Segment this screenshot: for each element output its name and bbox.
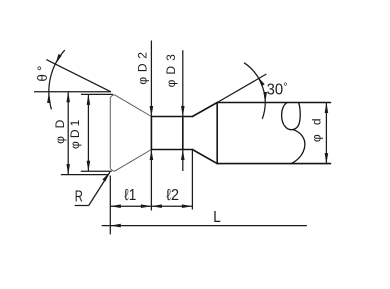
phiD3 dimension line upper [182, 50, 184, 116]
phiD dimension line [67, 92, 69, 175]
neck left vertical [150, 117, 152, 150]
cylinder left edge [216, 103, 218, 164]
arrow phiD1 top (up) [87, 94, 91, 105]
arrow phiD top (up) [66, 92, 70, 103]
neck right vertical [182, 117, 184, 150]
cylinder top edge [217, 102, 330, 104]
neck top edge [151, 116, 192, 118]
left extension line for l1 and L [109, 176, 111, 235]
phiD1 top extension line [81, 93, 113, 95]
phiD3 dimension line lower [182, 150, 184, 172]
break squiggle upper lobe [282, 103, 301, 130]
arrow 30 arc lower (down onto cylinder top) [263, 92, 267, 103]
arrow l1 right [141, 204, 152, 208]
arrow theta arc upper (down-left onto slant) [55, 54, 61, 64]
arrow theta arc lower (up) [47, 93, 51, 104]
30deg angle arc [244, 63, 265, 119]
phiD1 bottom extension line [81, 170, 112, 172]
phiD bottom extension line [61, 174, 108, 176]
cylinder bottom edge [217, 163, 330, 165]
arrow phid top (up) [325, 103, 329, 114]
R leader landing [75, 205, 89, 207]
arrow phiD2 top (down onto neck) [150, 106, 154, 117]
svg-text:ℓ1: ℓ1 [124, 187, 136, 204]
arrow phiD1 bottom (down) [87, 161, 91, 172]
arrow phiD2 bottom (up onto neck) [150, 150, 154, 161]
L dimension line [102, 225, 307, 227]
arrow R leader [102, 172, 110, 182]
chamfer top 30deg [192, 103, 217, 117]
arrow l1 left [110, 204, 121, 208]
phiD2 dimension line lower / l1-l2 extension [150, 150, 152, 211]
arrow phiD3 top (down onto neck) [181, 106, 185, 117]
phiD1 dimension line [87, 94, 89, 171]
svg-text:R: R [75, 186, 83, 205]
svg-text:L: L [213, 209, 221, 226]
theta reference horizontal line (also phiD top extension) [34, 91, 111, 93]
arrow l2 left [151, 204, 162, 208]
phid dimension line [325, 103, 327, 164]
arrow phiD3 bottom (up onto neck) [181, 150, 185, 161]
svg-text:φD3: φD3 [164, 54, 178, 88]
chamfer bottom [192, 150, 217, 164]
arrow phid bottom (down) [325, 153, 329, 164]
neck bottom edge [151, 149, 192, 151]
svg-text:ℓ2: ℓ2 [166, 186, 179, 204]
arrow l2 right [182, 204, 193, 208]
svg-text:φD2: φD2 [136, 52, 150, 85]
phiD2 dimension line upper [150, 41, 152, 117]
30deg slant extension beyond cylinder corner [217, 74, 266, 103]
arrow phiD bottom (down) [66, 164, 70, 175]
svg-text:φD1: φD1 [68, 119, 82, 149]
theta slant extension line [46, 60, 111, 92]
l1 l2 dimension line [110, 205, 192, 207]
cone body (tapered head, filleted corners) [110, 95, 151, 171]
arrow L left [110, 224, 121, 228]
arrow 30 arc upper (up onto slant) [258, 76, 265, 86]
l2 right extension line [191, 150, 193, 209]
theta angle arc [49, 50, 65, 109]
break squiggle lower arc [291, 130, 305, 164]
R leader slant [89, 172, 110, 206]
